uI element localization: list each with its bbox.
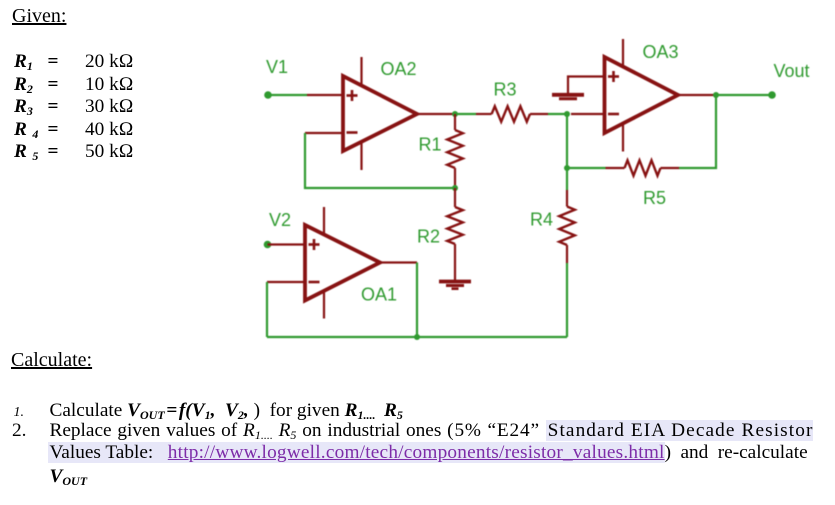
node junction R5 / R4 top — [564, 165, 570, 171]
wire V1 to OA2 +input — [268, 94, 307, 96]
heading Given: — [12, 5, 66, 28]
svg-text:R3: R3 — [494, 80, 517, 100]
wire OA1 -input feedback to bottom rail — [266, 282, 268, 337]
svg-text:R4: R4 — [530, 210, 553, 230]
resistor R2 — [447, 188, 463, 280]
wire junction to R3 left — [455, 113, 476, 115]
wire feedback Vout node down and left to R5 — [679, 95, 716, 168]
wire R5 left to node — [567, 167, 606, 169]
node junction R1 bottom / R2 top / feedback — [452, 185, 458, 191]
resistor R5 — [606, 160, 680, 175]
svg-text:R2: R2 — [417, 227, 440, 247]
wire R3 right to node — [548, 113, 567, 115]
resistor R3 — [476, 106, 548, 121]
ground below R2 — [439, 282, 471, 289]
item 2 number — [12, 420, 26, 442]
svg-text:R5: R5 — [643, 188, 666, 208]
svg-text:V1: V1 — [266, 57, 288, 77]
wire node down to R5/R4 node — [566, 114, 568, 168]
ground at OA3 +input — [552, 95, 584, 99]
node junction OA1 output on bottom rail — [414, 334, 420, 340]
resistor R4 — [559, 190, 575, 263]
op-amp OA2 — [305, 57, 455, 170]
wire R4 bottom to bottom rail — [566, 263, 568, 337]
node Vout terminal dot — [768, 91, 776, 99]
wire OA2 -input feedback down to R1/R2 node — [305, 133, 455, 188]
svg-text:OA3: OA3 — [643, 42, 679, 62]
svg-text:OA2: OA2 — [381, 59, 417, 79]
item 1 number — [14, 406, 25, 420]
svg-text:OA1: OA1 — [361, 285, 397, 305]
svg-text:V2: V2 — [269, 210, 291, 230]
item 1 text — [50, 400, 403, 422]
node junction OA3 output / Vout — [713, 92, 719, 98]
item 2 line 3 — [50, 466, 88, 488]
wire node down to R4 — [566, 168, 568, 190]
node V1 terminal dot — [264, 91, 272, 99]
node V2 terminal dot — [264, 241, 272, 249]
resistor value list — [14, 51, 134, 164]
item 2 line 2 — [48, 442, 808, 464]
svg-text:R1: R1 — [419, 135, 442, 155]
resistor R1 — [447, 114, 463, 188]
wire OA3 output to Vout — [716, 94, 772, 96]
op-amp OA3 — [568, 39, 716, 152]
wire bottom rail — [267, 336, 567, 338]
heading Calculate: — [11, 349, 92, 372]
wire OA1 output down to bottom rail — [416, 263, 418, 338]
node junction OA2 output / R1 top — [452, 111, 458, 117]
item 2 line 1 — [50, 420, 814, 442]
op-amp OA1 — [267, 207, 417, 319]
node junction R3 / OA3 -input / down — [564, 111, 570, 117]
svg-text:Vout: Vout — [774, 61, 810, 81]
